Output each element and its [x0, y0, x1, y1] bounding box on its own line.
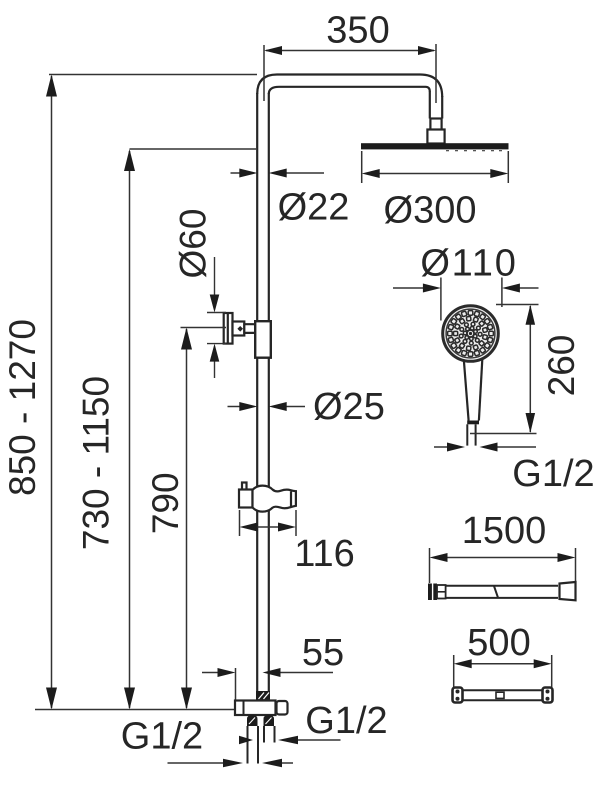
diverter knob — [277, 701, 288, 715]
dim diameter 22 — [231, 172, 325, 174]
shower arm (top bend) — [257, 75, 442, 130]
dim 55 — [202, 668, 333, 700]
dim G1/2 left — [168, 762, 225, 764]
shower hose — [428, 584, 437, 601]
svg-text:Ø22: Ø22 — [278, 187, 350, 229]
svg-text:Ø110: Ø110 — [420, 243, 517, 285]
svg-text:260: 260 — [541, 335, 582, 397]
svg-text:55: 55 — [302, 632, 344, 674]
svg-text:730 - 1150: 730 - 1150 — [76, 376, 117, 550]
baseline — [35, 709, 236, 711]
wall bracket (diameter 60) — [224, 313, 259, 344]
head connector flange — [427, 130, 444, 144]
bottom left pipe — [248, 726, 259, 764]
svg-text:Ø300: Ø300 — [384, 190, 477, 232]
dim G1/2 right — [296, 739, 341, 741]
svg-text:G1/2: G1/2 — [512, 453, 594, 495]
svg-text:500: 500 — [467, 622, 530, 664]
dim 116 — [240, 510, 297, 536]
svg-text:116: 116 — [294, 533, 355, 575]
svg-text:G1/2: G1/2 — [305, 700, 387, 742]
dim 1500 — [430, 548, 576, 583]
dim diameter 25 — [228, 406, 306, 408]
wall bar — [453, 688, 463, 703]
hand shower handle — [464, 360, 483, 421]
dim 850-1270 — [49, 74, 257, 76]
riser bottom nut — [256, 691, 270, 701]
svg-text:Ø60: Ø60 — [173, 209, 214, 279]
svg-text:850 - 1270: 850 - 1270 — [2, 319, 43, 496]
dim diameter 110 — [393, 278, 539, 321]
bottom tee fitting body — [235, 701, 276, 716]
slider holder — [239, 483, 296, 512]
svg-text:Ø25: Ø25 — [313, 386, 385, 428]
overhead shower disc — [361, 143, 509, 149]
dim 350 — [264, 44, 436, 103]
dim diameter 300 — [362, 151, 509, 183]
dim 260 — [470, 305, 539, 434]
riser pipe — [257, 93, 269, 692]
hand shower head rim — [443, 306, 499, 362]
svg-text:1500: 1500 — [462, 510, 547, 552]
pipe sleeve — [255, 321, 271, 358]
svg-text:350: 350 — [326, 10, 389, 52]
hand shower nozzle rings — [448, 311, 494, 357]
svg-text:790: 790 — [145, 472, 186, 534]
bottom right pipe — [264, 726, 275, 743]
dim 730-1150 — [130, 148, 257, 150]
outlet nut right — [264, 715, 275, 726]
dim 500 — [454, 655, 552, 687]
dim G1/2 handshower — [434, 446, 536, 448]
dim 790 — [186, 329, 188, 708]
disc nozzle dots — [446, 150, 502, 151]
dim diameter 60 — [181, 257, 227, 378]
bracket pivot dot — [237, 326, 243, 332]
outlet nut left — [247, 715, 258, 726]
svg-text:G1/2: G1/2 — [121, 716, 203, 758]
